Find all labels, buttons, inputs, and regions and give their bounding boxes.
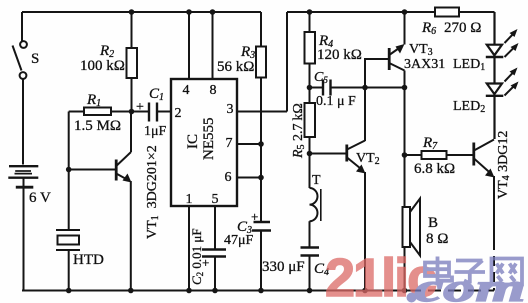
- svg-text:VT4 3DG12: VT4 3DG12: [496, 131, 512, 199]
- arrow VT1 emitter: [123, 174, 132, 183]
- arrow VT3 emitter: [396, 44, 405, 54]
- wire battery to bottom rail: [23, 187, 25, 292]
- transistor VT1: [116, 112, 131, 291]
- svg-text:56 kΩ: 56 kΩ: [217, 59, 254, 75]
- svg-text:1: 1: [186, 192, 193, 207]
- svg-text:0.1 μ F: 0.1 μ F: [316, 94, 356, 109]
- node VT3 collector junction: [402, 85, 408, 91]
- transistor VT3: [389, 12, 404, 88]
- arrow LED2 ray 2: [505, 85, 516, 96]
- capacitor C4 330uF: [301, 248, 320, 291]
- svg-text:+: +: [251, 209, 258, 224]
- node R2 rail: [129, 9, 135, 15]
- transistor VT2: [310, 88, 366, 291]
- piezo HTD: [56, 230, 80, 291]
- svg-text:NE555: NE555: [201, 118, 217, 161]
- resistor R4: [305, 12, 316, 88]
- bottom rail: [22, 290, 408, 292]
- svg-text:4: 4: [183, 83, 190, 98]
- wire switch column top: [21, 12, 23, 41]
- node pin6 junction: [258, 175, 264, 181]
- svg-text:330 μF: 330 μF: [262, 259, 305, 275]
- svg-text:VT1 3DG201×2: VT1 3DG201×2: [145, 145, 161, 239]
- node pin4 rail: [186, 9, 192, 15]
- svg-text:270 Ω: 270 Ω: [444, 20, 481, 36]
- resistor R6: [435, 8, 459, 17]
- node R5/VT2 base junction: [307, 151, 313, 157]
- capacitor C5 0.1uF: [310, 80, 366, 96]
- svg-text:47μF: 47μF: [224, 233, 254, 248]
- svg-text:+: +: [136, 100, 144, 115]
- svg-text:6.8 kΩ: 6.8 kΩ: [414, 161, 455, 177]
- speaker B: [403, 199, 421, 291]
- wire pin1 to bottom rail: [188, 206, 190, 291]
- svg-text:S: S: [31, 51, 39, 67]
- arrow LED2 ray 1: [505, 71, 516, 82]
- svg-text:B: B: [428, 215, 438, 231]
- node R2/C1/R1/VT1 junction: [129, 109, 135, 115]
- inductor T: [310, 188, 321, 247]
- watermark zi character: [455, 261, 486, 284]
- node C5/VT2 collector junction: [362, 85, 368, 91]
- svg-text:120 kΩ: 120 kΩ: [317, 47, 362, 63]
- resistor R2: [127, 12, 138, 112]
- wire top rail left section: [22, 11, 261, 13]
- wire R1 left down to base junction: [68, 112, 70, 231]
- node VT3 emitter rail: [402, 9, 408, 15]
- capacitor C3 47uF: [252, 222, 271, 291]
- node R4/R5/C5 junction: [307, 85, 313, 91]
- svg-text:8: 8: [210, 83, 217, 98]
- svg-text:6: 6: [225, 170, 232, 185]
- wire pin8 to rail: [212, 12, 214, 79]
- wire pin7 to R3: [237, 143, 261, 145]
- LED2: [486, 84, 504, 140]
- capacitor C1: [132, 103, 172, 122]
- svg-text:1μF: 1μF: [144, 124, 167, 139]
- resistor R1: [69, 108, 132, 116]
- op-amp/timer IC NE555 box: [171, 79, 237, 206]
- node base junction: [66, 167, 72, 173]
- capacitor C2 0.01uF on pin5: [202, 206, 226, 291]
- svg-text:2: 2: [175, 106, 182, 121]
- node R7 tee: [402, 152, 408, 158]
- arrow LED1 ray 2: [505, 46, 516, 57]
- arrow VT4 emitter: [485, 169, 495, 178]
- resistor R7: [405, 151, 473, 159]
- wire base of VT1: [69, 169, 115, 171]
- svg-text:5: 5: [212, 192, 219, 207]
- bottom rail junction nodes: [66, 288, 72, 294]
- svg-text:1.5 MΩ: 1.5 MΩ: [74, 118, 121, 134]
- svg-text:3: 3: [227, 102, 234, 117]
- watermark wang character: [492, 259, 523, 285]
- svg-text:HTD: HTD: [73, 252, 104, 268]
- switch S: [13, 41, 27, 79]
- resistor R3: [256, 12, 266, 222]
- wire pin3 riser to right rail: [286, 12, 288, 112]
- watermark dian character: [425, 257, 452, 281]
- transistor VT4: [474, 140, 494, 291]
- wire switch to battery: [22, 80, 24, 165]
- battery 6V: [8, 166, 38, 187]
- svg-text:C2 0.01 μF: C2 0.01 μF: [189, 228, 205, 285]
- resistor R5: [305, 88, 316, 189]
- watermark .com: [407, 293, 417, 303]
- wire pin4 to rail: [188, 12, 190, 79]
- svg-text:3AX31: 3AX31: [404, 57, 445, 72]
- wire top rail right section: [287, 11, 495, 13]
- svg-text:IC: IC: [185, 134, 201, 149]
- svg-text:8 Ω: 8 Ω: [426, 231, 448, 247]
- wire pin3 output: [237, 111, 287, 113]
- arrow VT2 emitter: [356, 165, 366, 174]
- svg-text:R5 2.7 kΩ: R5 2.7 kΩ: [291, 103, 307, 159]
- node pin7 junction: [258, 141, 264, 147]
- svg-text:com: com: [415, 265, 526, 303]
- node R4 rail: [307, 9, 313, 15]
- svg-text:7: 7: [226, 136, 233, 151]
- node pin8 rail: [210, 9, 216, 15]
- LED1: [486, 12, 504, 84]
- svg-text:T: T: [312, 173, 321, 188]
- wire VT3 collector down to speaker: [404, 88, 406, 208]
- svg-text:100 kΩ: 100 kΩ: [80, 58, 125, 74]
- wire VT3 base: [365, 59, 388, 88]
- wire pin6 to R3: [237, 177, 261, 179]
- wire C5 junction to VT3 collector column: [365, 87, 405, 89]
- arrow LED1 ray 1: [505, 32, 516, 43]
- svg-text:6 V: 6 V: [29, 190, 51, 206]
- bottom rail dashed under watermark: [408, 290, 494, 292]
